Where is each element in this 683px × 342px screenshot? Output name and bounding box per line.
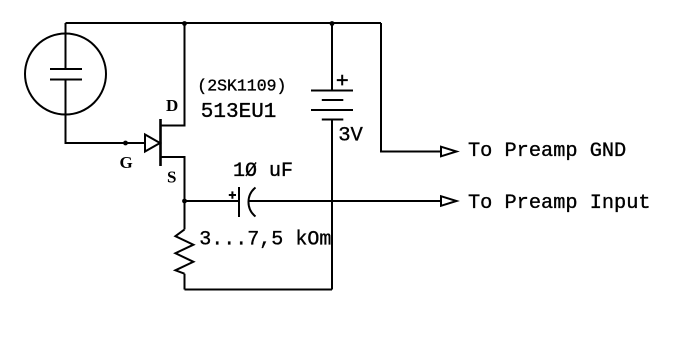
junction dot battery plus to top rail <box>330 21 335 26</box>
JFET Q1 source lead <box>161 157 185 201</box>
battery BT1 plate short 1 <box>322 99 344 101</box>
battery BT1 plate long 1 <box>311 90 353 92</box>
resistor R1 bottom lead <box>184 274 186 290</box>
junction dot source node <box>182 199 187 204</box>
svg-text:S: S <box>167 167 176 186</box>
capacitor C1 negative curved plate <box>248 188 255 217</box>
JFET Q1 channel bar <box>159 119 162 166</box>
wire top supply rail <box>66 22 382 24</box>
battery BT1 plate short 2 <box>322 119 344 121</box>
resistor R1 zigzag body <box>175 229 193 273</box>
microphone internal capacitor top plate <box>50 68 82 70</box>
wire capacitor C1 to preamp input <box>249 200 441 202</box>
svg-text:513EU1: 513EU1 <box>201 101 277 124</box>
svg-text:(2SK1109): (2SK1109) <box>197 77 286 96</box>
battery BT1 negative lead <box>331 120 333 290</box>
capacitor C1 positive plate <box>238 187 240 217</box>
svg-text:To Preamp GND: To Preamp GND <box>468 140 626 163</box>
microphone internal capacitor bottom plate <box>50 79 82 81</box>
svg-text:To Preamp Input: To Preamp Input <box>468 192 651 215</box>
open arrow to preamp GND <box>441 147 457 157</box>
battery BT1 positive lead <box>331 23 333 90</box>
junction dot drain to top rail <box>182 21 187 26</box>
svg-text:D: D <box>166 96 178 115</box>
wire bottom return rail <box>185 289 333 291</box>
wire microphone bottom lead to gate <box>66 80 145 143</box>
microphone top lead <box>65 23 67 69</box>
open arrow to preamp input <box>441 196 457 206</box>
electret microphone MIC capsule <box>25 34 106 115</box>
battery BT1 plate long 2 <box>311 109 353 111</box>
JFET Q1 gate arrow <box>145 135 160 152</box>
wire source node to capacitor C1 <box>185 200 239 202</box>
svg-text:1Ø uF: 1Ø uF <box>233 160 293 183</box>
resistor R1 top lead <box>184 201 186 229</box>
svg-text:3V: 3V <box>338 125 363 148</box>
svg-text:G: G <box>120 153 133 172</box>
junction dot node G <box>123 141 128 146</box>
svg-text:3...7,5 kOm: 3...7,5 kOm <box>199 228 331 251</box>
capacitor C1 plus mark <box>229 191 236 198</box>
JFET Q1 drain lead <box>161 23 185 126</box>
wire preamp GND branch <box>381 23 441 152</box>
battery plus sign <box>337 75 348 86</box>
